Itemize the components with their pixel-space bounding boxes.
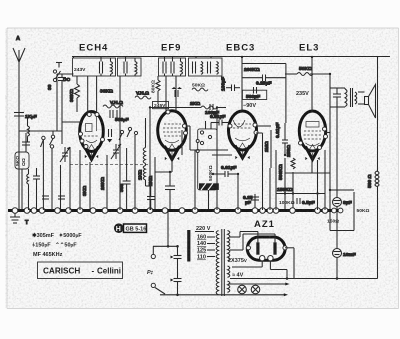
- IF transformer box 3: [189, 58, 223, 76]
- wire left mid: [52, 131, 53, 210]
- wire EF9 pins to pot: [186, 121, 206, 150]
- capacitor 0.25uF: [243, 194, 259, 210]
- speaker: [358, 85, 376, 119]
- wave switch contacts left: [41, 74, 58, 148]
- band switch contacts: [119, 127, 138, 140]
- capacitor in box3 a: [193, 62, 196, 74]
- label 245V: [153, 102, 169, 110]
- CARISCH Cellini box: [38, 262, 123, 279]
- tube ECH4: [70, 76, 148, 164]
- oscillator coil small: [27, 169, 29, 210]
- input coil upper: [28, 118, 30, 142]
- capacitor AVC left: [57, 74, 74, 122]
- resistor 2M vertical: [264, 130, 271, 168]
- legend symbols: [32, 232, 82, 258]
- wires ECH4 to bus verticals: [80, 76, 325, 210]
- capacitor mains a: [171, 246, 182, 278]
- wire EL3 grid drop: [285, 64, 287, 124]
- bus end terminals: [330, 209, 342, 212]
- capacitor 1KpF antenna: [14, 113, 37, 121]
- IF transformer box 1b: [118, 58, 142, 76]
- filament winding 4V AZ1: [228, 266, 230, 277]
- GBC badge: [114, 223, 147, 233]
- resistor 2K: [150, 101, 226, 109]
- wire output to filter: [336, 101, 338, 190]
- wires left verticals: [19, 122, 83, 210]
- tube EL3: [299, 57, 328, 160]
- tube AZ1: [246, 237, 287, 261]
- capacitor osc grid: [119, 148, 155, 210]
- resistor 2K cathode EF9: [148, 157, 155, 210]
- capacitor 0.25uF top: [242, 75, 286, 87]
- capacitor EF9 cathode: [155, 161, 175, 211]
- capacitor 0.01uF EL3 grid: [275, 122, 288, 155]
- capacitor in box1 b: [124, 58, 127, 76]
- wire rail stubs: [101, 57, 211, 59]
- tap 140: [197, 241, 215, 247]
- wire filter loop: [330, 190, 354, 231]
- tube EF9: [158, 76, 188, 160]
- B+ top rail: [72, 56, 390, 58]
- wire lower right horizontal: [230, 278, 378, 280]
- padder box 5K: [15, 152, 29, 169]
- capacitor 0.01uF detector: [213, 165, 238, 177]
- detector horizontal wires: [190, 126, 271, 155]
- wire right side vertical: [377, 57, 379, 172]
- resistor 500K vertical: [278, 158, 285, 210]
- field coil 500ohm: [367, 171, 379, 188]
- coil in box3 b: [217, 62, 219, 75]
- transformer core: [221, 229, 223, 296]
- IF transformer box 1a: [73, 58, 116, 76]
- wire from bus to mains: [153, 212, 178, 246]
- resistor 50K EL3: [285, 66, 330, 76]
- oscillator coil: [138, 118, 151, 186]
- resistor 250 cathode: [286, 145, 295, 169]
- resistor 30K vertical left: [69, 76, 80, 112]
- tube EBC3: [228, 57, 258, 159]
- mains terminal bottom: [151, 283, 155, 287]
- tap 110: [197, 255, 215, 261]
- ground: [10, 213, 29, 226]
- resistor VHF wavy: [100, 89, 151, 109]
- capacitor 0.5uF: [297, 198, 315, 206]
- resistor 3K vertical: [82, 162, 90, 210]
- variable capacitor tuning 2: [111, 144, 121, 159]
- tap 160: [197, 235, 215, 241]
- transformer tap selector bar: [187, 230, 190, 262]
- tap 125: [197, 248, 215, 254]
- capacitor 100uF IF: [221, 77, 241, 91]
- label 4V: [232, 273, 244, 279]
- label 220V: [195, 226, 214, 232]
- bus terminals: [12, 208, 328, 214]
- wire rail left drop: [73, 57, 75, 59]
- capacitor 500pF: [110, 110, 129, 123]
- variable capacitor tuning 1: [60, 147, 70, 162]
- capacitor in box1 a: [100, 58, 103, 76]
- capacitor pair left: [22, 133, 30, 152]
- heater wires with arrows: [228, 283, 290, 286]
- wire EL3 anode to transformer: [285, 74, 330, 190]
- capacitor mains b: [171, 279, 182, 295]
- electrolytic 8uF: [330, 190, 352, 249]
- output transformer: [330, 88, 357, 107]
- pilot lamp 1: [238, 285, 247, 294]
- capacitor bottom left b: [58, 196, 65, 199]
- capacitor in box3 b: [208, 62, 211, 74]
- mains switch: [153, 246, 288, 296]
- resistor 200K EBC3: [244, 67, 260, 73]
- capacitor 0.01uF left: [210, 114, 229, 129]
- capacitor in box2: [163, 58, 174, 76]
- resistor 20K vertical: [100, 155, 107, 210]
- chassis bus: [8, 209, 330, 212]
- antenna A: [13, 36, 25, 210]
- power transformer primary winding: [216, 231, 218, 295]
- coil in box1 b: [135, 58, 137, 76]
- coil in box2: [181, 58, 183, 76]
- IF transformer box 2: [159, 58, 186, 76]
- capacitor 100uF: [172, 87, 220, 116]
- capacitor osc: [33, 168, 40, 210]
- pilot lamp 2: [251, 285, 260, 294]
- switch DC: [47, 63, 71, 91]
- capacitor padder double: [107, 129, 112, 143]
- coil in box3 a: [201, 62, 203, 75]
- HV secondary winding: [228, 231, 230, 261]
- filament winding 4V heaters: [228, 281, 230, 292]
- resistor 150K: [276, 172, 325, 210]
- volume potentiometer 500K: [196, 129, 219, 210]
- mains terminal top: [151, 254, 155, 258]
- coil in box1 a: [111, 58, 113, 76]
- capacitor 500uF loop: [242, 87, 266, 100]
- electrolytic 16uF: [333, 249, 356, 279]
- wires transformer to AZ1: [230, 232, 294, 279]
- capacitor bottom left a: [42, 196, 49, 199]
